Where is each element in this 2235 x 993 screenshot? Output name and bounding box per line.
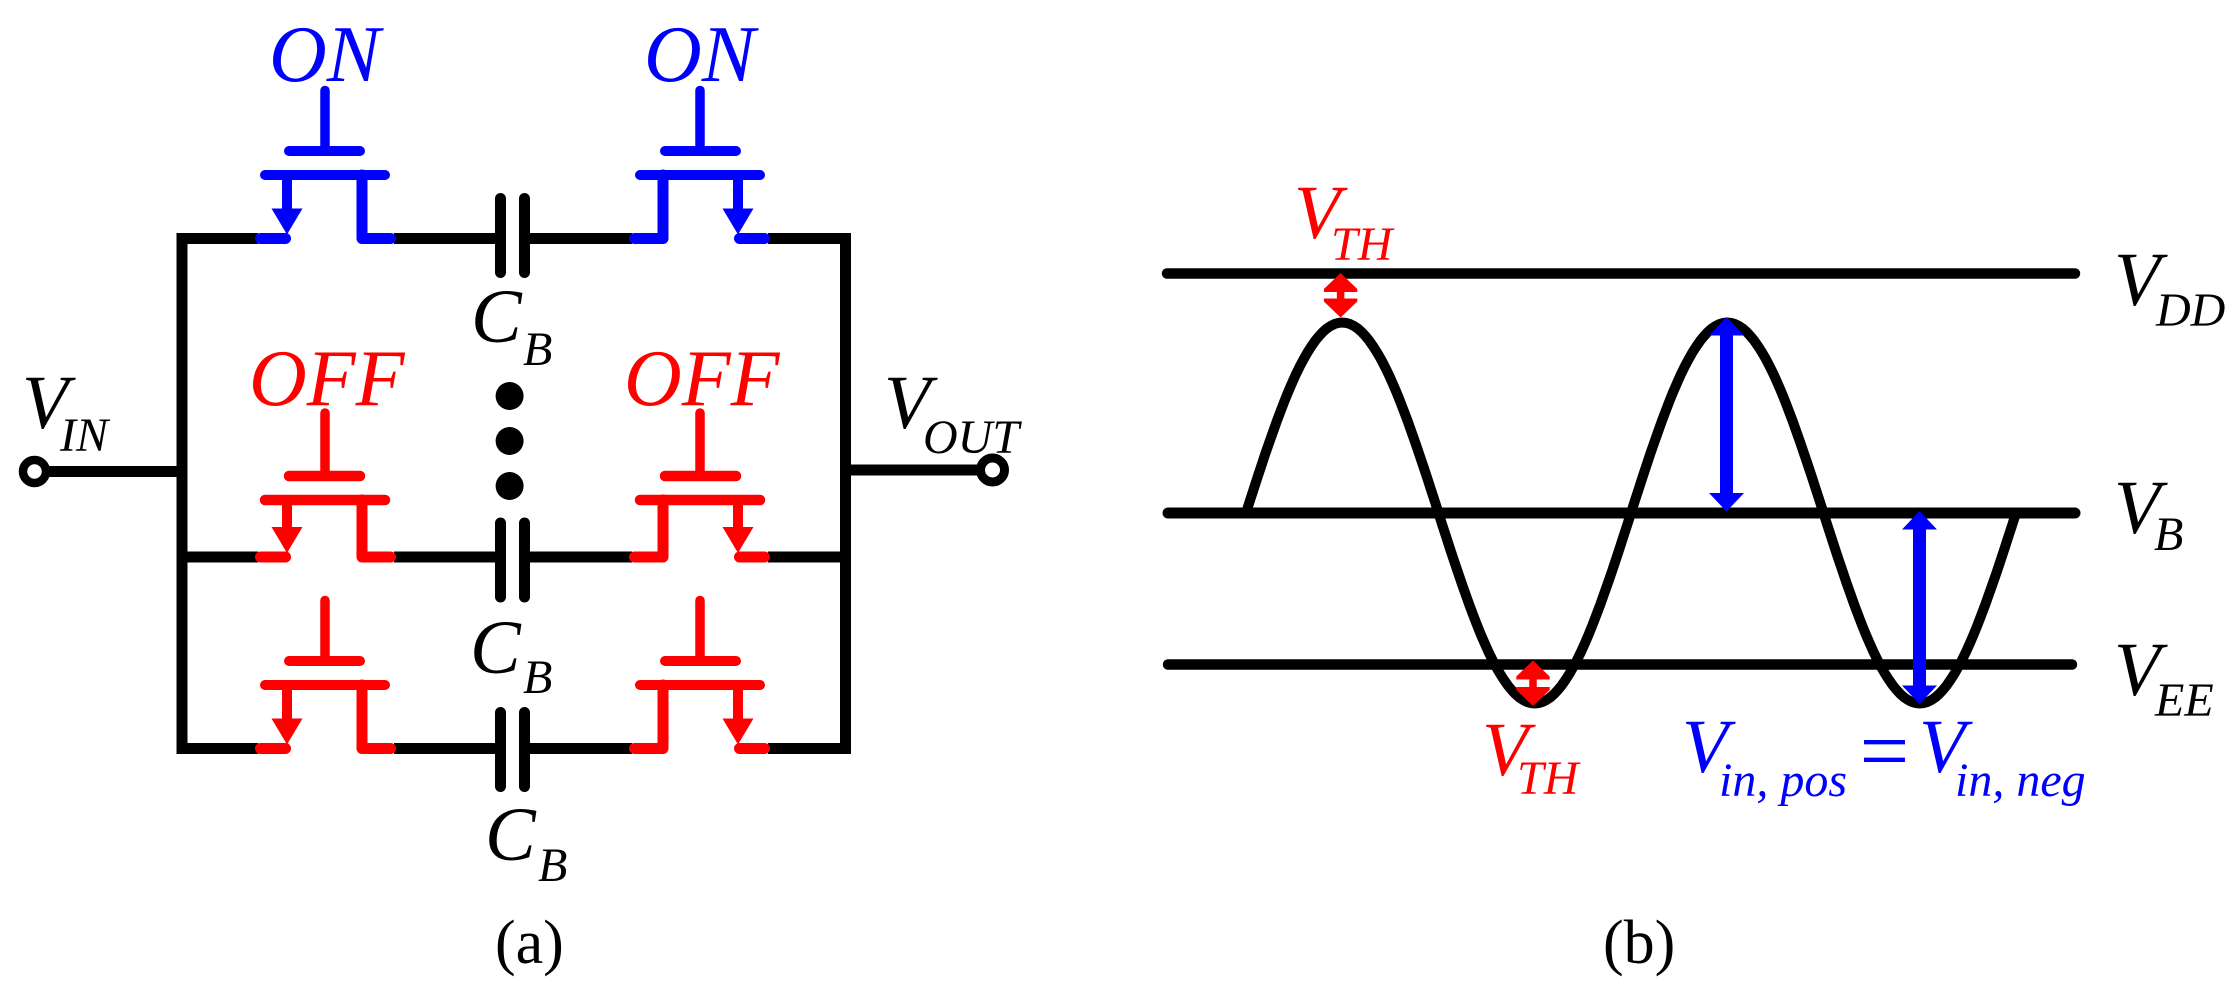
svg-text:OUT: OUT	[923, 411, 1022, 464]
terminal VOUT port	[981, 458, 1005, 482]
wire right bus	[840, 239, 851, 749]
wire row3 seg2	[394, 743, 496, 754]
svg-text:B: B	[2154, 508, 2183, 561]
svg-text:EE: EE	[2154, 674, 2214, 727]
node ellipsis dots	[496, 382, 524, 500]
transistor M1 (ON top-left)	[261, 91, 391, 239]
transistor M5 (bottom-left)	[261, 601, 391, 749]
svg-text:C: C	[471, 275, 523, 359]
wire row3 seg1	[177, 743, 258, 754]
svg-text:in, pos: in, pos	[1719, 754, 1847, 807]
svg-text:ON: ON	[644, 11, 760, 99]
transistor M3 (OFF mid-left)	[261, 413, 391, 557]
wire row2 seg1	[177, 552, 258, 563]
capacitor C1 plates	[501, 199, 525, 273]
arrow VTH bottom (red)	[1516, 661, 1549, 677]
wire row3 seg4	[768, 743, 851, 754]
arrow Vin,pos (blue)	[1709, 317, 1744, 336]
transistor M4 (OFF mid-right)	[635, 413, 765, 557]
svg-text:B: B	[523, 323, 552, 376]
wire row1 seg4	[768, 233, 851, 244]
wire row2 seg4	[768, 552, 851, 563]
wire left bus	[177, 239, 188, 749]
wire row2 seg3	[530, 552, 633, 563]
arrow VTH top (red)	[1324, 273, 1357, 289]
capacitor C2 plates	[501, 523, 525, 597]
svg-text:C: C	[485, 793, 537, 877]
wire sine waveform	[1246, 323, 2016, 704]
wire VIN lead	[46, 466, 182, 477]
capacitor C3 plates	[501, 713, 525, 787]
transistor M6 (bottom-right)	[635, 601, 765, 749]
wire row1 seg3	[530, 233, 633, 244]
svg-text:OFF: OFF	[624, 335, 781, 423]
svg-text:IN: IN	[59, 409, 111, 462]
svg-text:DD: DD	[2155, 284, 2225, 337]
svg-text:TH: TH	[1331, 218, 1395, 271]
terminal VIN port	[23, 460, 46, 483]
wire VOUT lead	[846, 465, 979, 476]
svg-text:B: B	[523, 651, 552, 704]
svg-text:OFF: OFF	[249, 335, 406, 423]
transistor M2 (ON top-right)	[635, 91, 765, 239]
svg-text:in, neg: in, neg	[1955, 754, 2086, 807]
svg-text:C: C	[470, 606, 522, 690]
wire row2 seg2	[394, 552, 496, 563]
svg-text:=: =	[1854, 703, 1913, 800]
svg-text:(b): (b)	[1603, 909, 1675, 977]
node VDD level line	[1167, 268, 2075, 279]
wire row1 seg1	[177, 233, 258, 244]
svg-text:B: B	[538, 839, 567, 892]
svg-text:(a): (a)	[495, 909, 564, 977]
wire row3 seg3	[530, 743, 633, 754]
arrow Vin,neg (blue)	[1902, 511, 1937, 530]
svg-text:ON: ON	[269, 11, 385, 99]
node VB level line	[1168, 508, 2075, 519]
svg-text:TH: TH	[1517, 752, 1581, 805]
node VEE level line	[1168, 659, 2072, 670]
wire row1 seg2	[394, 233, 496, 244]
